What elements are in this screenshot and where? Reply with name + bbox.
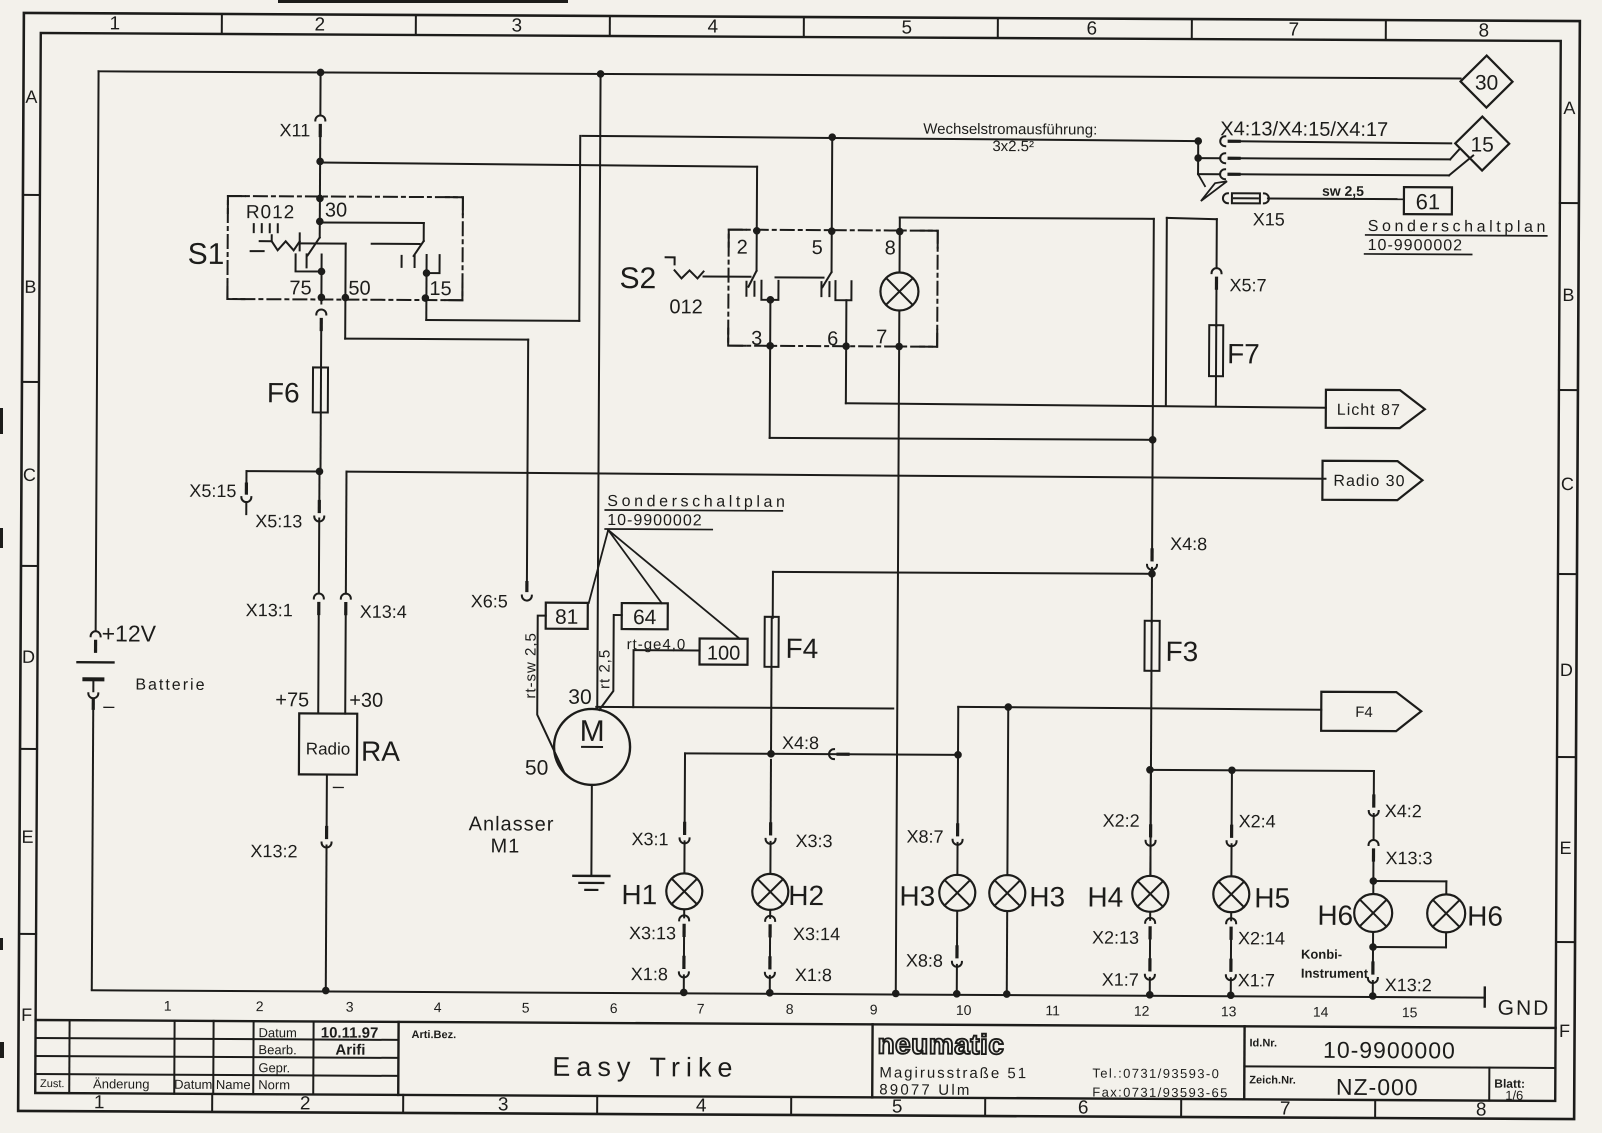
svg-text:6: 6 xyxy=(610,1000,618,1016)
svg-text:X1:7: X1:7 xyxy=(1238,970,1275,990)
wire H6 gnd xyxy=(1372,947,1374,967)
wire S2 pin3 out xyxy=(766,300,1157,444)
S2 contact 2-3 xyxy=(746,281,778,304)
svg-text:Änderung: Änderung xyxy=(93,1076,149,1091)
svg-text:H1: H1 xyxy=(621,879,657,910)
wire X4 branch vertical xyxy=(1194,141,1205,186)
svg-text:30: 30 xyxy=(1475,72,1498,95)
svg-text:10-9900002: 10-9900002 xyxy=(1368,237,1464,254)
svg-text:X13:2: X13:2 xyxy=(1385,975,1432,995)
svg-text:8: 8 xyxy=(885,237,896,259)
S2 contact 5-6 xyxy=(821,281,851,300)
svg-text:12: 12 xyxy=(1134,1003,1150,1019)
wire F4 out xyxy=(767,667,775,758)
svg-text:X4:8: X4:8 xyxy=(1170,534,1207,554)
svg-text:X3:3: X3:3 xyxy=(796,831,833,851)
svg-text:S2: S2 xyxy=(619,262,656,295)
S1 contact left xyxy=(296,254,326,275)
wire X13:1 to radio xyxy=(317,615,320,713)
svg-text:X1:8: X1:8 xyxy=(631,964,668,984)
lamp H6 left xyxy=(1317,894,1392,932)
Zeich.Nr. cell xyxy=(1249,1073,1418,1100)
svg-text:RA: RA xyxy=(361,736,400,767)
bottom grid ticks xyxy=(212,1094,1375,1118)
svg-text:+30: +30 xyxy=(349,690,383,712)
label Batterie xyxy=(135,677,206,694)
label S2 pin 6 xyxy=(827,328,838,350)
title block values xyxy=(321,1024,379,1058)
svg-text:neumatic: neumatic xyxy=(877,1028,1004,1060)
lamp S2 interior xyxy=(880,272,918,310)
wire box100 lead xyxy=(633,650,699,707)
svg-text:Radio: Radio xyxy=(306,739,351,758)
svg-text:3: 3 xyxy=(498,1094,509,1115)
svg-text:X2:2: X2:2 xyxy=(1103,811,1140,831)
connector X13:1 xyxy=(246,593,324,620)
svg-text:89077 Ulm: 89077 Ulm xyxy=(879,1081,971,1098)
wire pin6 to Licht xyxy=(846,403,1326,408)
wire box81 lead xyxy=(537,616,565,772)
S1 contact blade left xyxy=(300,237,420,256)
svg-text:X15: X15 xyxy=(1253,209,1285,229)
wire H6 bridge bottom xyxy=(1369,932,1446,951)
wire X11 feed xyxy=(317,69,325,116)
label S2 pin 5 xyxy=(812,237,823,259)
svg-text:5: 5 xyxy=(812,237,823,259)
wire S1 pin30 xyxy=(316,137,324,237)
wire X4 branch 3 xyxy=(1198,154,1473,180)
svg-text:11: 11 xyxy=(1045,1002,1060,1018)
svg-text:X4:2: X4:2 xyxy=(1385,801,1422,821)
wire F3 column upper xyxy=(1152,219,1154,552)
svg-text:H5: H5 xyxy=(1254,882,1290,913)
lamp H2 xyxy=(752,760,841,997)
fuse F4 xyxy=(764,617,818,667)
svg-text:NZ-000: NZ-000 xyxy=(1336,1074,1419,1100)
wire S2 lamp top xyxy=(896,217,904,272)
label X4 connectors xyxy=(1220,118,1388,141)
wire S2 pin6 out xyxy=(842,300,850,403)
svg-text:75: 75 xyxy=(289,277,311,299)
svg-text:7: 7 xyxy=(697,1000,705,1016)
svg-text:–: – xyxy=(103,695,115,717)
svg-text:F: F xyxy=(1559,1021,1570,1041)
wire radio gnd xyxy=(326,775,328,830)
svg-text:Licht 87: Licht 87 xyxy=(1337,402,1401,419)
left grid ticks xyxy=(19,195,40,934)
relay S1 box xyxy=(227,196,463,300)
connector X5:13 xyxy=(255,501,324,531)
svg-text:B: B xyxy=(1562,285,1574,305)
svg-text:sw 2,5: sw 2,5 xyxy=(1322,183,1364,199)
svg-text:H4: H4 xyxy=(1087,882,1123,913)
svg-text:Name: Name xyxy=(216,1077,251,1092)
S1 contact right xyxy=(402,255,440,277)
svg-text:Anlasser: Anlasser xyxy=(469,813,555,835)
label S2 pin 8 xyxy=(885,237,896,259)
connector battery minus xyxy=(88,693,98,708)
ground xyxy=(573,876,609,890)
battery minus plate xyxy=(84,679,102,691)
lamp H5 xyxy=(1213,770,1291,999)
svg-text:Gepr.: Gepr. xyxy=(258,1060,290,1075)
svg-text:X3:13: X3:13 xyxy=(629,923,676,943)
bottom grid numbers xyxy=(94,1092,1487,1120)
wire to F6 xyxy=(320,325,322,368)
top grid numbers xyxy=(109,13,1489,41)
node diamond 30 xyxy=(1460,55,1512,107)
svg-text:Easy Trike: Easy Trike xyxy=(552,1052,738,1083)
label S2 pin 2 xyxy=(737,237,748,259)
lamp H6 right xyxy=(1427,894,1503,932)
wire X13:2 to bus xyxy=(322,845,330,994)
wire box64 lead xyxy=(599,615,621,710)
svg-text:Sonderschaltplan: Sonderschaltplan xyxy=(607,493,788,511)
wire motor 30 bus xyxy=(596,707,893,709)
svg-text:Fax:0731/93593-65: Fax:0731/93593-65 xyxy=(1092,1085,1229,1101)
label S1 pin 50 xyxy=(348,278,370,300)
wire X13:3 to H6 xyxy=(1369,862,1377,894)
right grid ticks xyxy=(1556,203,1579,942)
svg-text:8: 8 xyxy=(1476,1100,1487,1121)
node box 64 xyxy=(622,603,668,629)
left grid letters xyxy=(20,87,38,1025)
node box 61 xyxy=(1404,187,1452,214)
label motor 30 xyxy=(568,686,591,709)
svg-text:H6: H6 xyxy=(1467,900,1503,931)
svg-text:Wechselstromausführung:: Wechselstromausführung: xyxy=(923,121,1097,139)
svg-text:M1: M1 xyxy=(490,835,520,857)
fuse F6 xyxy=(267,367,328,412)
connector X5:7 xyxy=(1211,268,1266,295)
label RA xyxy=(361,736,400,767)
connector below 75 xyxy=(316,309,326,329)
svg-text:2: 2 xyxy=(314,14,325,35)
svg-text:2: 2 xyxy=(256,998,264,1014)
connector X13:3 xyxy=(1368,840,1432,868)
connector X6:5 xyxy=(471,582,532,611)
connector X4:8 upper xyxy=(1147,534,1207,570)
svg-text:Magirusstraße 51: Magirusstraße 51 xyxy=(879,1064,1028,1082)
svg-text:7: 7 xyxy=(876,326,887,348)
wire 15 riser xyxy=(578,136,581,321)
wire H4 H5 feed xyxy=(1150,766,1374,775)
svg-text:5: 5 xyxy=(522,1000,530,1016)
svg-text:X13:2: X13:2 xyxy=(250,841,297,861)
label rt-ge4,0 xyxy=(627,636,687,653)
wire X4:2 to X13:3 xyxy=(1373,814,1375,840)
wire Radio 30 line xyxy=(346,472,1325,479)
wire S2 lamp bottom xyxy=(892,310,903,997)
svg-text:E: E xyxy=(1559,838,1571,858)
svg-text:X4:13/X4:15/X4:17: X4:13/X4:15/X4:17 xyxy=(1220,118,1388,141)
lamp H1 xyxy=(621,753,703,996)
svg-text:2: 2 xyxy=(737,237,748,259)
svg-text:X6:5: X6:5 xyxy=(471,591,508,611)
svg-text:S1: S1 xyxy=(188,238,225,271)
svg-text:8: 8 xyxy=(1478,21,1489,42)
label +12V xyxy=(102,620,157,646)
svg-text:3: 3 xyxy=(346,999,354,1015)
wire S2 pin2 feed xyxy=(320,162,761,234)
svg-text:H3: H3 xyxy=(1029,881,1065,912)
svg-text:14: 14 xyxy=(1313,1004,1329,1020)
svg-text:X8:7: X8:7 xyxy=(907,827,944,847)
title block row labels xyxy=(40,1024,297,1092)
connector X11 xyxy=(280,115,326,140)
svg-text:30: 30 xyxy=(568,686,591,709)
label S2 pin 7 xyxy=(876,326,887,348)
connector X13:2 xyxy=(250,827,331,861)
label S1 pin 30 xyxy=(325,200,347,222)
title Easy Trike xyxy=(552,1052,738,1083)
svg-text:rt 2,5: rt 2,5 xyxy=(596,649,613,689)
svg-text:R012: R012 xyxy=(246,202,296,223)
wire +30 top bus xyxy=(99,71,1461,78)
wire F4 feed xyxy=(773,572,1152,620)
label Anlasser M1 xyxy=(468,813,554,857)
svg-text:13: 13 xyxy=(1221,1003,1237,1019)
svg-text:Id.Nr.: Id.Nr. xyxy=(1249,1037,1277,1049)
label sw 2,5 xyxy=(1322,183,1364,199)
node box 100 xyxy=(699,638,747,664)
svg-text:GND: GND xyxy=(1498,997,1551,1020)
flag Radio 30 xyxy=(1322,461,1422,501)
wire X5:13 to X13:1 xyxy=(318,518,320,593)
phone xyxy=(1092,1066,1229,1101)
svg-text:X2:14: X2:14 xyxy=(1238,928,1285,948)
label S2 xyxy=(619,262,656,295)
Blatt cell xyxy=(1494,1077,1525,1103)
wire radio30 node xyxy=(345,472,348,594)
label S1 pin 15 xyxy=(429,278,451,300)
wire X4 branch 2 xyxy=(1198,148,1459,164)
svg-text:F: F xyxy=(21,1005,32,1025)
svg-text:–: – xyxy=(333,776,345,798)
svg-text:1: 1 xyxy=(94,1092,105,1113)
svg-text:X4:8: X4:8 xyxy=(782,733,819,753)
label motor 50 xyxy=(525,757,548,780)
Id.Nr. cell xyxy=(1249,1036,1456,1063)
svg-text:10: 10 xyxy=(956,1002,972,1018)
svg-text:H6: H6 xyxy=(1317,900,1353,931)
svg-text:Arifi: Arifi xyxy=(335,1042,365,1059)
label minus xyxy=(103,695,115,717)
wire lamp loop top xyxy=(900,218,1154,219)
wire S1 15 out xyxy=(421,273,579,321)
wire node to X5:13 xyxy=(318,471,320,503)
title block grid xyxy=(35,1020,1555,1101)
scan edge marks xyxy=(0,0,568,1058)
label radio minus xyxy=(333,776,345,798)
wire F7 out xyxy=(1215,376,1217,406)
svg-text:X5:13: X5:13 xyxy=(255,511,302,531)
top grid ticks xyxy=(222,14,1386,40)
lamp H3 left xyxy=(899,755,976,998)
svg-text:10-9900000: 10-9900000 xyxy=(1323,1037,1456,1064)
label Konbi-Instrument xyxy=(1301,947,1369,981)
svg-text:012: 012 xyxy=(669,296,702,318)
svg-text:6: 6 xyxy=(827,328,838,350)
svg-text:D: D xyxy=(1560,660,1573,680)
svg-text:F6: F6 xyxy=(267,377,300,408)
connector X13:2 right xyxy=(1368,963,1432,995)
svg-text:A: A xyxy=(25,87,37,107)
svg-text:C: C xyxy=(23,465,36,485)
label S1 pin 75 xyxy=(289,277,311,299)
connector X15 xyxy=(1223,193,1285,229)
svg-text:7: 7 xyxy=(1288,20,1299,41)
connector X4:2 xyxy=(1369,796,1422,821)
wire S1 crossbar xyxy=(320,222,424,241)
wire S2 pin5 xyxy=(828,137,836,272)
svg-text:1/6: 1/6 xyxy=(1505,1088,1523,1103)
wire battery left bus upper xyxy=(96,71,99,630)
flag Licht 87 xyxy=(1326,390,1425,429)
S2 contact blade 5 xyxy=(822,272,831,287)
pointer lines xyxy=(589,530,741,639)
wire S1 50 stub xyxy=(341,244,349,339)
svg-text:Tel.:0731/93593-0: Tel.:0731/93593-0 xyxy=(1092,1066,1220,1082)
svg-text:4: 4 xyxy=(696,1095,707,1116)
wire H6 bridge top xyxy=(1373,881,1446,894)
wire Wechselstrom line xyxy=(582,132,1202,145)
wire U top xyxy=(1167,218,1217,268)
svg-text:7: 7 xyxy=(1280,1099,1291,1120)
label Radio xyxy=(306,739,351,758)
switch S2 box xyxy=(728,230,938,347)
svg-text:X5:15: X5:15 xyxy=(189,481,236,501)
svg-text:3: 3 xyxy=(511,15,522,36)
svg-text:E: E xyxy=(22,827,34,847)
connector X4:8 xyxy=(782,733,848,759)
svg-text:A: A xyxy=(1563,98,1575,118)
svg-text:9: 9 xyxy=(870,1001,878,1017)
svg-text:Instrument: Instrument xyxy=(1301,966,1369,981)
svg-text:X2:4: X2:4 xyxy=(1239,811,1276,831)
label rt 2,5 xyxy=(596,649,613,689)
svg-text:1: 1 xyxy=(164,998,172,1014)
svg-text:8: 8 xyxy=(786,1001,794,1017)
svg-text:81: 81 xyxy=(555,606,578,629)
svg-text:X13:3: X13:3 xyxy=(1385,848,1432,868)
flag F4 xyxy=(1321,692,1421,732)
wire X5:15 stub xyxy=(246,471,319,483)
address xyxy=(879,1064,1028,1099)
svg-text:B: B xyxy=(24,277,36,297)
GND terminal xyxy=(1485,988,1551,1020)
svg-text:X13:1: X13:1 xyxy=(246,600,293,620)
svg-text:X3:14: X3:14 xyxy=(793,924,840,944)
svg-text:10-9900002: 10-9900002 xyxy=(607,512,703,529)
label +75 xyxy=(275,689,309,711)
wire X5:7 to F7 xyxy=(1215,290,1217,326)
connector X13:4 xyxy=(341,594,407,622)
neumatic logo xyxy=(877,1028,1004,1060)
wire F4 flag feed xyxy=(958,703,1321,757)
wire S1 75 out xyxy=(318,271,326,303)
right grid letters xyxy=(1558,98,1576,1041)
node diamond 15 xyxy=(1455,116,1509,170)
label S1 xyxy=(188,238,225,271)
wire X15 to 61 xyxy=(1268,197,1404,200)
svg-text:50: 50 xyxy=(525,757,548,780)
svg-text:X8:8: X8:8 xyxy=(906,951,943,971)
svg-text:+75: +75 xyxy=(275,689,309,711)
label rt-sw 2,5 xyxy=(522,632,539,699)
svg-text:Batterie: Batterie xyxy=(135,677,206,694)
svg-text:X11: X11 xyxy=(280,120,311,140)
connector battery plus xyxy=(91,631,101,651)
wire 30 riser to motor xyxy=(593,70,604,708)
svg-text:Datum: Datum xyxy=(174,1077,212,1092)
svg-text:Sonderschaltplan: Sonderschaltplan xyxy=(1368,218,1549,236)
Arti.Bez. label xyxy=(412,1029,457,1041)
fuse F7 xyxy=(1209,325,1260,376)
svg-text:X2:13: X2:13 xyxy=(1092,928,1139,948)
wire X4 branch 1 xyxy=(1220,136,1451,147)
lamp H4 xyxy=(1087,770,1169,999)
svg-text:100: 100 xyxy=(707,643,740,665)
label S2 pin 3 xyxy=(751,328,762,350)
svg-text:H3: H3 xyxy=(899,881,935,912)
svg-text:X1:7: X1:7 xyxy=(1102,970,1139,990)
relay S1 coil xyxy=(251,224,300,251)
svg-text:X3:1: X3:1 xyxy=(631,829,668,849)
wire motor gnd xyxy=(590,785,592,876)
note Sonderschaltplan top right xyxy=(1365,218,1549,255)
wire battery left bus lower xyxy=(92,708,93,989)
svg-text:Radio 30: Radio 30 xyxy=(1333,473,1405,490)
svg-text:F3: F3 xyxy=(1165,636,1198,667)
svg-text:30: 30 xyxy=(325,200,347,222)
svg-text:5: 5 xyxy=(892,1096,903,1117)
svg-text:4: 4 xyxy=(707,17,718,38)
S1 contact blade right xyxy=(414,241,424,256)
svg-text:3x2.5²: 3x2.5² xyxy=(992,138,1034,155)
wire F3 out xyxy=(1146,671,1155,876)
svg-text:Konbi-: Konbi- xyxy=(1301,947,1342,962)
svg-text:15: 15 xyxy=(429,278,451,300)
svg-text:64: 64 xyxy=(633,606,657,629)
svg-text:61: 61 xyxy=(1416,189,1441,214)
wire F6 to node xyxy=(316,412,324,475)
label Wechselstrom xyxy=(923,121,1097,156)
svg-text:X13:4: X13:4 xyxy=(360,602,407,622)
svg-text:5: 5 xyxy=(901,18,912,39)
svg-text:Zust.: Zust. xyxy=(40,1078,65,1090)
svg-text:X5:7: X5:7 xyxy=(1229,275,1266,295)
S2 contact blade 2 xyxy=(748,231,823,287)
svg-text:H2: H2 xyxy=(788,880,824,911)
label R012 xyxy=(246,202,296,223)
note Sonderschaltplan mid xyxy=(605,493,788,530)
motor M1 xyxy=(554,709,630,785)
label 012 xyxy=(669,296,702,318)
svg-text:F4: F4 xyxy=(1355,704,1373,721)
svg-text:2: 2 xyxy=(300,1093,311,1114)
radio RA box xyxy=(299,713,357,774)
svg-text:Arti.Bez.: Arti.Bez. xyxy=(412,1029,457,1041)
lamp H3 right xyxy=(989,707,1066,998)
svg-text:15: 15 xyxy=(1470,134,1493,157)
wire H6 drop xyxy=(1373,771,1375,798)
svg-text:Bearb.: Bearb. xyxy=(258,1042,296,1057)
svg-text:X1:8: X1:8 xyxy=(795,965,832,985)
inner scale numbers xyxy=(164,998,1418,1021)
fuse F3 xyxy=(1144,621,1198,671)
wire X4:8 line xyxy=(685,750,962,759)
